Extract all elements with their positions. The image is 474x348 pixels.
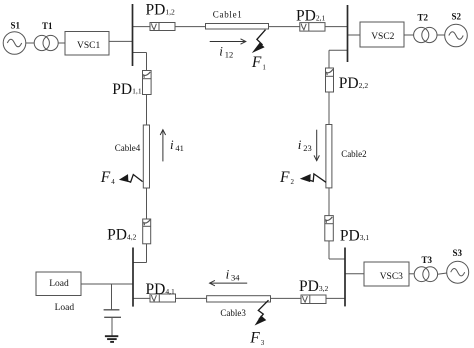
svg-text:T1: T1: [42, 21, 53, 31]
svg-text:T3: T3: [422, 255, 433, 265]
svg-text:Cable3: Cable3: [220, 308, 246, 318]
svg-text:Load: Load: [55, 303, 75, 313]
svg-text:Cable2: Cable2: [341, 149, 367, 159]
svg-text:VSC1: VSC1: [77, 41, 100, 51]
svg-text:S3: S3: [453, 248, 463, 258]
svg-text:Load: Load: [49, 279, 69, 289]
svg-text:S1: S1: [11, 20, 21, 30]
svg-text:Cable4: Cable4: [115, 143, 141, 153]
svg-text:VSC3: VSC3: [380, 272, 403, 282]
svg-text:S2: S2: [452, 12, 462, 22]
svg-text:T2: T2: [418, 13, 429, 23]
svg-text:Cable1: Cable1: [213, 9, 243, 19]
svg-text:VSC2: VSC2: [371, 32, 394, 42]
